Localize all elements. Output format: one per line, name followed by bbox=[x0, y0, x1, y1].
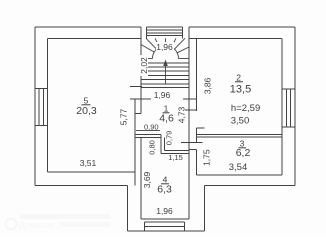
svg-text:6,2: 6,2 bbox=[236, 147, 251, 159]
svg-text:5,77: 5,77 bbox=[119, 108, 129, 125]
svg-text:20,3: 20,3 bbox=[76, 105, 97, 117]
svg-text:h=2,59: h=2,59 bbox=[231, 103, 260, 114]
svg-text:3,86: 3,86 bbox=[203, 77, 213, 94]
svg-text:2: 2 bbox=[236, 73, 241, 83]
svg-text:1,15: 1,15 bbox=[168, 153, 183, 162]
svg-text:0,90: 0,90 bbox=[144, 122, 159, 131]
svg-text:3,50: 3,50 bbox=[231, 116, 250, 127]
svg-text:1,96: 1,96 bbox=[156, 206, 173, 216]
svg-text:3,69: 3,69 bbox=[142, 171, 152, 188]
svg-text:Домклик: Домклик bbox=[19, 220, 55, 230]
svg-text:6,3: 6,3 bbox=[157, 183, 172, 195]
svg-text:3,54: 3,54 bbox=[229, 162, 248, 173]
svg-text:2,02: 2,02 bbox=[139, 57, 149, 74]
svg-text:0,79: 0,79 bbox=[164, 131, 173, 146]
svg-text:0,80: 0,80 bbox=[147, 140, 156, 155]
svg-text:1,75: 1,75 bbox=[202, 149, 212, 166]
svg-text:4,6: 4,6 bbox=[159, 112, 174, 124]
svg-text:4,73: 4,73 bbox=[177, 106, 187, 123]
svg-text:1,96: 1,96 bbox=[154, 90, 171, 100]
svg-text:13,5: 13,5 bbox=[230, 83, 251, 95]
svg-text:3,51: 3,51 bbox=[80, 158, 97, 168]
svg-text:1,96: 1,96 bbox=[156, 42, 173, 52]
